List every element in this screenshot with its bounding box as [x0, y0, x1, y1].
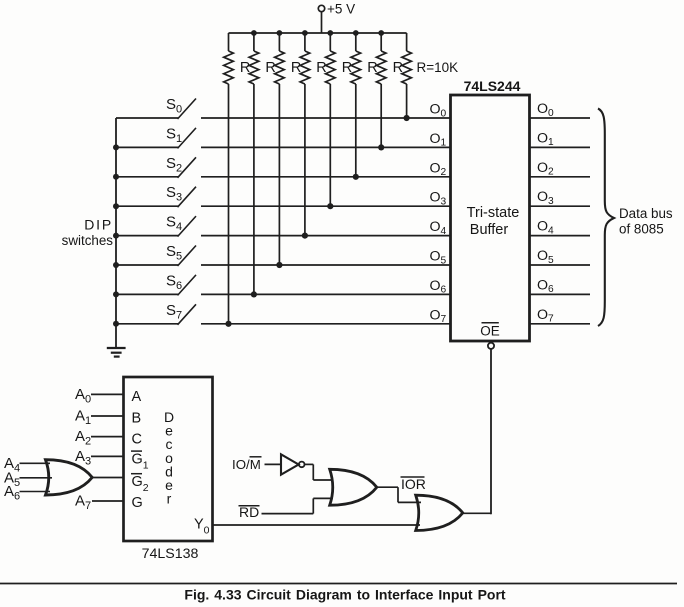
svg-text:R: R: [265, 60, 275, 76]
svg-text:Fig. 4.33 Circuit Diagram to I: Fig. 4.33 Circuit Diagram to Interface I…: [184, 587, 506, 603]
svg-text:r: r: [167, 491, 172, 507]
svg-text:OE: OE: [480, 324, 500, 339]
svg-text:switches: switches: [62, 233, 114, 248]
svg-text:of 8085: of 8085: [619, 222, 664, 237]
svg-text:R: R: [291, 60, 301, 76]
svg-text:R: R: [393, 60, 403, 76]
svg-text:+5 V: +5 V: [327, 2, 355, 17]
svg-text:R=10K: R=10K: [417, 60, 459, 75]
svg-text:74LS244: 74LS244: [464, 78, 521, 94]
svg-text:Data bus: Data bus: [619, 206, 673, 221]
svg-text:Buffer: Buffer: [470, 222, 509, 238]
svg-text:DIP: DIP: [84, 217, 113, 233]
svg-text:B: B: [132, 411, 142, 427]
svg-text:IOR: IOR: [401, 476, 426, 492]
svg-text:R: R: [367, 60, 377, 76]
svg-text:R: R: [316, 60, 326, 76]
svg-text:A: A: [132, 389, 142, 405]
svg-text:R: R: [240, 60, 250, 76]
svg-text:G: G: [132, 495, 143, 511]
svg-text:R: R: [342, 60, 352, 76]
svg-text:C: C: [132, 431, 142, 447]
svg-text:IO/M: IO/M: [232, 457, 261, 472]
svg-text:74LS138: 74LS138: [142, 546, 199, 562]
svg-text:Tri-state: Tri-state: [467, 205, 520, 221]
